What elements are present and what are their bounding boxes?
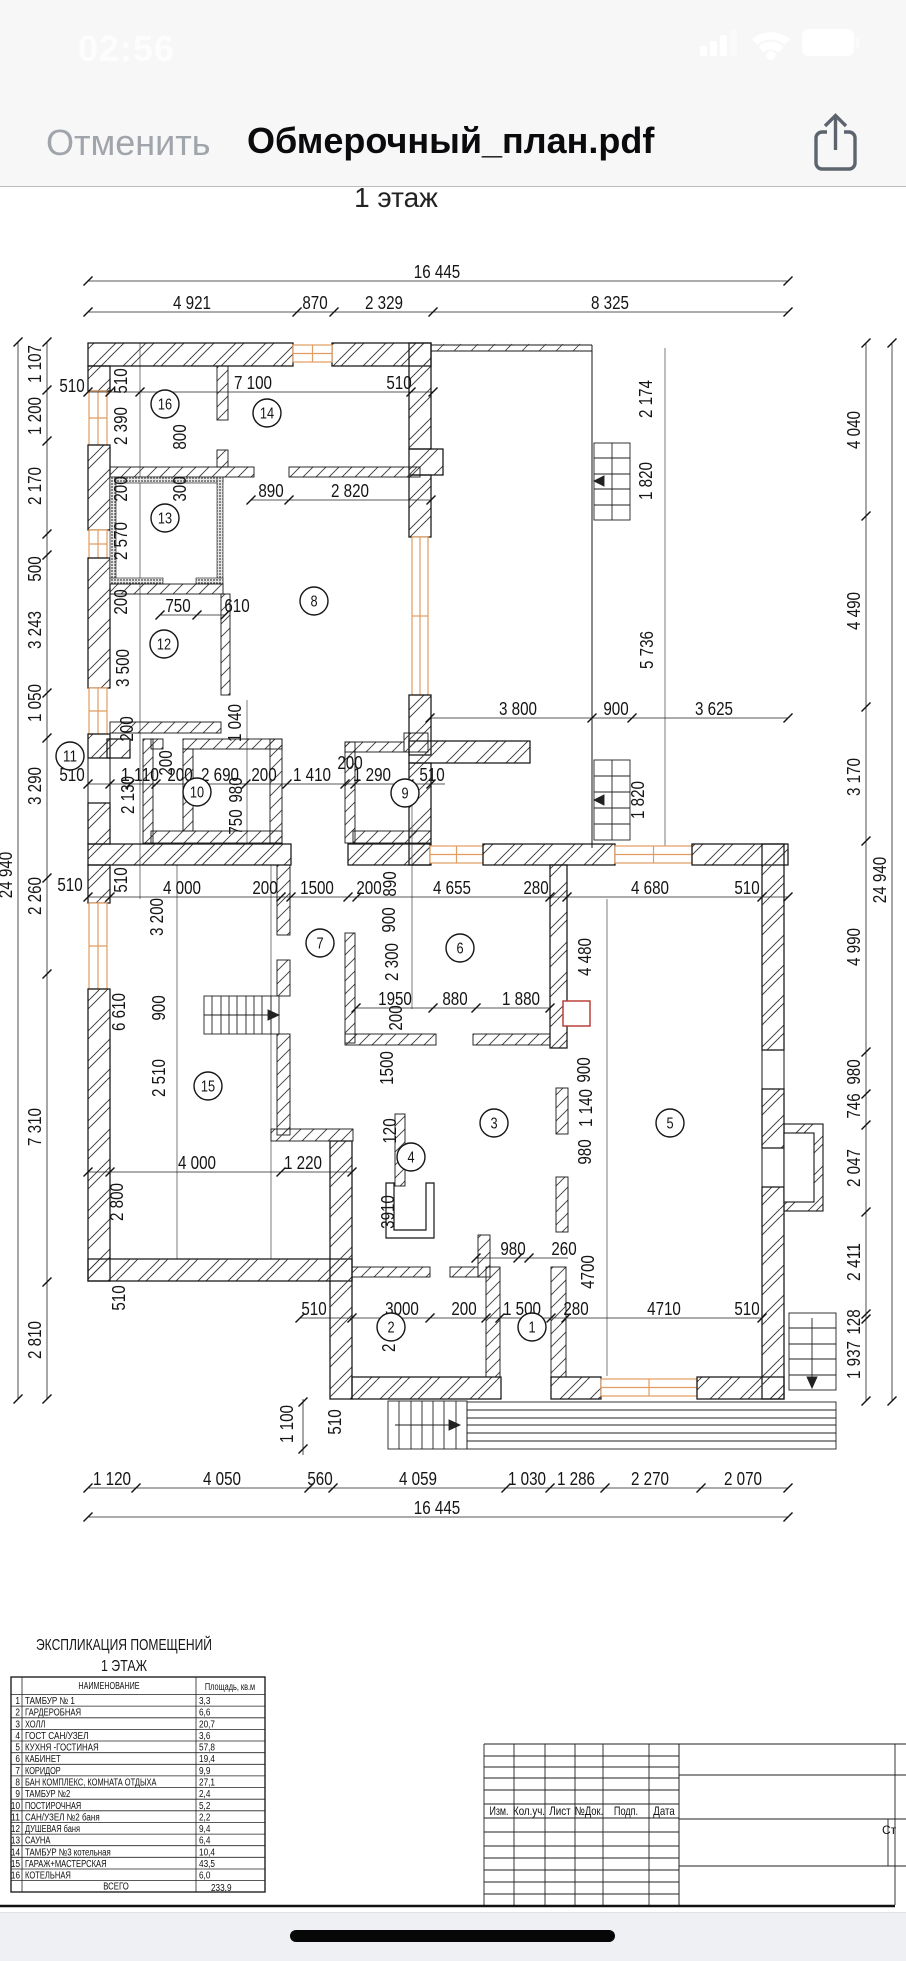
svg-text:5,2: 5,2 [199, 1801, 211, 1812]
svg-text:16 445: 16 445 [414, 1497, 460, 1518]
svg-text:КОРИДОР: КОРИДОР [25, 1766, 61, 1777]
dim row rooms 10-9 [59, 764, 445, 789]
svg-text:6,0: 6,0 [199, 1871, 211, 1882]
sauna room13 wall east [217, 477, 223, 584]
room 13 [151, 504, 179, 532]
wall room1 east [551, 1267, 566, 1377]
partition room7 east vertical [345, 933, 355, 1043]
cellular signal icon [700, 46, 707, 56]
svg-text:3 243: 3 243 [24, 611, 45, 649]
svg-text:890: 890 [258, 480, 283, 501]
construction line x247 [246, 700, 248, 843]
partition room11 east [143, 739, 153, 843]
svg-text:1500: 1500 [376, 1051, 397, 1085]
svg-text:11: 11 [63, 749, 77, 766]
room 4 [397, 1143, 425, 1171]
partition room15 east mid [277, 960, 290, 996]
svg-text:4 655: 4 655 [433, 877, 471, 898]
outer wall east seg2 [762, 1089, 784, 1148]
svg-text:9: 9 [15, 1789, 20, 1800]
svg-text:БАН КОМПЛЕКС, КОМНАТА ОТДЫХА: БАН КОМПЛЕКС, КОМНАТА ОТДЫХА [25, 1778, 157, 1789]
svg-text:2 270: 2 270 [631, 1468, 669, 1489]
stairs right of terrace [789, 1313, 836, 1390]
svg-text:6,6: 6,6 [199, 1708, 211, 1719]
svg-text:7 100: 7 100 [234, 372, 272, 393]
svg-text:10,4: 10,4 [199, 1847, 215, 1858]
outer wall bottom-left [88, 1259, 352, 1281]
svg-text:200: 200 [356, 877, 381, 898]
svg-text:1 030: 1 030 [508, 1468, 546, 1489]
svg-text:2 510: 2 510 [148, 1059, 169, 1097]
wall room8-garage upper [409, 343, 431, 449]
svg-text:1 200: 1 200 [24, 397, 45, 435]
svg-text:2 820: 2 820 [331, 480, 369, 501]
svg-text:120: 120 [379, 1118, 400, 1143]
svg-text:1 286: 1 286 [557, 1468, 595, 1489]
svg-text:1 410: 1 410 [293, 764, 331, 785]
partition room12-room8 vertical [221, 594, 230, 695]
dimension row 16 445 (top) [84, 261, 793, 286]
svg-text:610: 610 [224, 595, 249, 616]
svg-text:14: 14 [260, 406, 275, 423]
construction line x412 [411, 784, 413, 1009]
svg-text:3,6: 3,6 [199, 1731, 211, 1742]
outer wall west seg3 [88, 558, 110, 688]
sauna room13 wall south-left [110, 578, 163, 584]
svg-text:980: 980 [574, 1139, 595, 1164]
partition below room12 [110, 722, 221, 733]
svg-text:2 047: 2 047 [843, 1149, 864, 1187]
room 8 [300, 587, 328, 615]
wifi icon [752, 32, 790, 44]
svg-text:260: 260 [551, 1238, 576, 1259]
svg-text:15: 15 [201, 1079, 215, 1096]
svg-text:ГАРДЕРОБНАЯ: ГАРДЕРОБНАЯ [25, 1708, 81, 1719]
svg-text:3 170: 3 170 [843, 758, 864, 796]
bay window (erker) east [784, 1124, 823, 1211]
svg-text:Ст: Ст [882, 1823, 897, 1837]
wall room9 east [409, 763, 431, 865]
svg-text:5: 5 [15, 1743, 20, 1754]
svg-text:24 940: 24 940 [869, 857, 890, 903]
svg-text:3 800: 3 800 [499, 698, 537, 719]
svg-text:ХОЛЛ: ХОЛЛ [25, 1719, 45, 1730]
svg-text:3910: 3910 [377, 1195, 398, 1229]
svg-text:300: 300 [169, 476, 190, 501]
masonry U-shape in room 4 [386, 1183, 434, 1238]
svg-text:128: 128 [843, 1309, 864, 1334]
svg-text:13: 13 [11, 1836, 20, 1847]
svg-text:9,9: 9,9 [199, 1766, 211, 1777]
partition below room 14 east [289, 467, 420, 477]
middle wall between windows [483, 844, 615, 865]
wall room8-garage lower [409, 695, 431, 755]
left outer dimension 24 940 [0, 338, 23, 1404]
svg-text:1 120: 1 120 [93, 1468, 131, 1489]
cancel button [46, 122, 211, 164]
right segment dimensions column [843, 339, 871, 1406]
bottom home indicator area [0, 1912, 906, 1961]
room 12 [150, 630, 178, 658]
dim row 890-2820 [247, 480, 436, 505]
svg-text:Подп.: Подп. [614, 1804, 638, 1818]
svg-text:1950: 1950 [378, 988, 412, 1009]
outer wall west seg4b [88, 803, 110, 844]
svg-text:4 680: 4 680 [631, 877, 669, 898]
dim line 1 100 bottom stairs [302, 1399, 304, 1455]
right outer dimension 24 940 [869, 339, 897, 1406]
svg-text:200: 200 [110, 589, 131, 614]
middle wall west part [88, 844, 291, 865]
partition room3 north [473, 1034, 550, 1045]
svg-text:14: 14 [11, 1847, 20, 1858]
wall room1 west [486, 1267, 500, 1377]
partition rooms16-14 stub upper [217, 366, 228, 420]
svg-text:16: 16 [11, 1871, 20, 1882]
partition below room13 [110, 584, 223, 594]
dim row 3800-900-3625 [426, 698, 793, 723]
svg-text:280: 280 [523, 877, 548, 898]
window opening east wall line1 [761, 1148, 763, 1187]
svg-text:7: 7 [15, 1766, 20, 1777]
svg-text:24 940: 24 940 [0, 852, 16, 898]
battery icon [802, 29, 854, 56]
svg-text:8 325: 8 325 [591, 292, 629, 313]
svg-text:6: 6 [15, 1754, 20, 1765]
svg-text:1 ЭТАЖ: 1 ЭТАЖ [101, 1658, 148, 1675]
svg-text:4 059: 4 059 [399, 1468, 437, 1489]
svg-text:ДУШЕВАЯ баня: ДУШЕВАЯ баня [25, 1823, 80, 1835]
svg-text:3 200: 3 200 [146, 898, 167, 936]
svg-text:233,9: 233,9 [211, 1883, 232, 1894]
room 11 [56, 742, 84, 770]
outer wall west seg4a [88, 734, 110, 758]
svg-text:ТАМБУР №3 котельная: ТАМБУР №3 котельная [25, 1847, 111, 1858]
outer wall bottom seg2 [551, 1377, 601, 1399]
svg-text:ТАМБУР № 1: ТАМБУР № 1 [25, 1696, 75, 1707]
window in middle wall right [615, 846, 692, 863]
svg-text:43,5: 43,5 [199, 1859, 215, 1870]
garage top thin wall lower line [431, 350, 592, 352]
svg-text:200: 200 [385, 1005, 406, 1030]
door opening west wall line2 [109, 758, 111, 803]
svg-text:КОТЕЛЬНАЯ: КОТЕЛЬНАЯ [25, 1871, 71, 1882]
svg-text:1 937: 1 937 [843, 1341, 864, 1379]
svg-text:САУНА: САУНА [25, 1836, 51, 1847]
window in top wall [293, 345, 332, 362]
svg-text:3: 3 [490, 1116, 497, 1133]
partition room15-room4 jog [271, 1129, 353, 1141]
svg-text:20,7: 20,7 [199, 1719, 215, 1730]
svg-text:10: 10 [190, 785, 205, 802]
construction line x665 garage [664, 348, 666, 848]
wall rooms6-5 vertical [550, 865, 567, 1048]
stairs middle (garage, exterior) [594, 760, 630, 840]
partition rooms3-5 stub2 [556, 1177, 568, 1232]
svg-text:10: 10 [11, 1801, 20, 1812]
partition room2 north [352, 1267, 430, 1277]
svg-text:9,4: 9,4 [199, 1824, 211, 1835]
middle wall east part [692, 844, 788, 865]
outer wall top-right segment [332, 343, 431, 366]
svg-text:2 329: 2 329 [365, 292, 403, 313]
outer wall bottom seg3 [697, 1377, 784, 1399]
partition room9 west [345, 742, 355, 843]
svg-text:6,4: 6,4 [199, 1836, 211, 1847]
outer wall west seg2 [88, 445, 110, 530]
tambour bump room11 [107, 739, 130, 758]
sheet bottom border [0, 1905, 895, 1908]
room 10 [183, 778, 211, 806]
svg-text:12: 12 [157, 637, 171, 654]
svg-text:4: 4 [407, 1150, 414, 1167]
svg-text:200: 200 [252, 877, 277, 898]
svg-text:3: 3 [15, 1719, 20, 1730]
wall pilaster room8 east [409, 449, 443, 475]
garage south-west corner wall [409, 741, 530, 763]
svg-text:510: 510 [110, 867, 131, 892]
svg-text:900: 900 [148, 995, 169, 1020]
svg-text:510: 510 [59, 375, 84, 396]
svg-text:2 800: 2 800 [106, 1183, 127, 1221]
document title [247, 120, 654, 162]
svg-text:2 170: 2 170 [24, 467, 45, 505]
svg-text:6 610: 6 610 [108, 993, 129, 1031]
room 3 [480, 1109, 508, 1137]
dim row 980-260 [472, 1238, 577, 1263]
partition room10 south [151, 831, 282, 843]
svg-text:200: 200 [451, 1298, 476, 1319]
svg-text:900: 900 [573, 1057, 594, 1082]
svg-text:27,1: 27,1 [199, 1778, 215, 1789]
svg-text:2,2: 2,2 [199, 1812, 211, 1823]
iOS navigation chrome [0, 0, 906, 187]
svg-text:1 040: 1 040 [224, 704, 245, 742]
svg-text:8: 8 [15, 1778, 20, 1789]
svg-text:980: 980 [500, 1238, 525, 1259]
svg-text:980: 980 [843, 1059, 864, 1084]
svg-text:1 050: 1 050 [24, 684, 45, 722]
svg-text:11: 11 [11, 1812, 20, 1823]
window room8-garage [412, 537, 428, 695]
svg-text:8: 8 [310, 594, 317, 611]
partition rooms3-5 stub1 [556, 1088, 568, 1134]
outer wall bottom seg1 [352, 1377, 501, 1399]
svg-text:Кол.уч.: Кол.уч. [513, 1804, 545, 1818]
construction line x177 [176, 865, 178, 1259]
svg-text:5: 5 [666, 1116, 673, 1133]
partition room10 east [270, 739, 282, 843]
construction line x607 [606, 899, 608, 1376]
svg-text:510: 510 [386, 372, 411, 393]
window in bottom wall [601, 1379, 697, 1396]
room 1 [518, 1313, 546, 1341]
red service rectangle [563, 1001, 590, 1026]
svg-text:200: 200 [251, 764, 276, 785]
svg-text:ГОСТ САН/УЗЕЛ: ГОСТ САН/УЗЕЛ [25, 1731, 89, 1742]
partition room9 north [345, 742, 404, 752]
svg-text:900: 900 [603, 698, 628, 719]
svg-text:4: 4 [15, 1731, 20, 1742]
partition room9 corner piece [404, 733, 428, 752]
svg-text:1 100: 1 100 [276, 1405, 297, 1443]
svg-text:Лист: Лист [549, 1804, 571, 1818]
svg-text:2: 2 [387, 1320, 394, 1337]
room 16 [151, 390, 179, 418]
window W1 west wall [89, 391, 107, 445]
svg-text:4 990: 4 990 [843, 928, 864, 966]
partition room15 east lower [277, 1034, 290, 1135]
svg-text:57,8: 57,8 [199, 1743, 215, 1754]
stairs in room 15 [204, 996, 279, 1034]
sauna room13 wall north [110, 477, 223, 483]
svg-text:7 310: 7 310 [24, 1108, 45, 1146]
svg-text:510: 510 [110, 368, 131, 393]
svg-text:870: 870 [302, 292, 327, 313]
svg-text:510: 510 [301, 1298, 326, 1319]
room 5 [656, 1109, 684, 1137]
svg-text:3,3: 3,3 [199, 1696, 211, 1707]
svg-text:4 040: 4 040 [843, 411, 864, 449]
svg-text:ВСЕГО: ВСЕГО [103, 1882, 129, 1893]
svg-text:7: 7 [316, 936, 323, 953]
dimension row bottom segments [84, 1468, 793, 1493]
entrance stairs bottom [388, 1401, 467, 1449]
svg-text:13: 13 [158, 511, 172, 528]
svg-text:6: 6 [456, 941, 463, 958]
svg-text:3 625: 3 625 [695, 698, 733, 719]
partition room15 east upper [277, 865, 290, 935]
dim row rooms 2-1 [296, 1298, 767, 1323]
window W4 west wall [89, 903, 107, 989]
title block stamp grid [484, 1744, 906, 1905]
svg-text:2 174: 2 174 [635, 380, 656, 418]
svg-text:510: 510 [419, 764, 444, 785]
explication table text [11, 1681, 255, 1894]
svg-text:3 500: 3 500 [112, 649, 133, 687]
svg-text:3 290: 3 290 [24, 767, 45, 805]
title block labels [489, 1804, 896, 1837]
svg-text:1 220: 1 220 [284, 1152, 322, 1173]
svg-text:12: 12 [11, 1824, 20, 1835]
svg-text:КАБИНЕТ: КАБИНЕТ [25, 1754, 61, 1765]
svg-text:2 570: 2 570 [110, 522, 131, 560]
construction line x140 [139, 343, 141, 899]
svg-text:4 490: 4 490 [843, 592, 864, 630]
room 2 [377, 1313, 405, 1341]
svg-text:№Док.: №Док. [575, 1804, 603, 1818]
door opening west wall line1 [87, 758, 89, 803]
svg-text:200: 200 [110, 476, 131, 501]
partition tambour1 stub [450, 1267, 478, 1277]
window W3 west wall [89, 688, 107, 734]
partition rooms16-14 stub lower [217, 450, 228, 467]
partition tambour1 west vertical [478, 1235, 490, 1277]
partition below rooms 16/14 west [110, 467, 254, 477]
svg-text:САН/УЗЕЛ №2 баня: САН/УЗЕЛ №2 баня [25, 1811, 100, 1823]
status bar time [78, 28, 175, 70]
svg-text:Площадь, кв.м: Площадь, кв.м [205, 1682, 255, 1693]
garage top wall hatch ticks [437, 344, 580, 351]
status bar icons [698, 24, 860, 64]
garage east thin wall [591, 345, 593, 848]
sauna room13 wall west [110, 477, 116, 584]
svg-text:1: 1 [528, 1320, 535, 1337]
svg-text:890: 890 [379, 871, 400, 896]
svg-text:1 820: 1 820 [627, 781, 648, 819]
outer wall west seg6 [88, 989, 110, 1281]
svg-text:16: 16 [158, 397, 172, 414]
window opening east wall line2 [783, 1148, 785, 1187]
svg-text:4 480: 4 480 [574, 938, 595, 976]
partition room10 west [183, 749, 193, 831]
svg-text:510: 510 [734, 1298, 759, 1319]
svg-text:ПОСТИРОЧНАЯ: ПОСТИРОЧНАЯ [25, 1801, 81, 1812]
dimension row 4921-870-2329-8325 [84, 292, 793, 317]
dim row 1950-880-1880 [352, 988, 555, 1013]
room 15 [194, 1072, 222, 1100]
window opening east wall upper line1 [761, 1050, 763, 1089]
window W2 west wall [89, 530, 107, 558]
construction line x271 [270, 865, 272, 1259]
svg-text:510: 510 [734, 877, 759, 898]
svg-text:2 411: 2 411 [843, 1243, 864, 1281]
room 9 [391, 779, 419, 807]
outer wall east seg3 [762, 1187, 784, 1399]
svg-text:1: 1 [15, 1696, 20, 1707]
svg-text:746: 746 [843, 1093, 864, 1118]
svg-text:ТАМБУР №2: ТАМБУР №2 [25, 1789, 71, 1800]
svg-text:510: 510 [108, 1285, 129, 1310]
partition room9 south [353, 831, 431, 843]
svg-text:16 445: 16 445 [414, 261, 460, 282]
dim row 7100 [84, 372, 438, 397]
room 7 [306, 929, 334, 957]
room 14 [253, 399, 281, 427]
svg-text:510: 510 [57, 874, 82, 895]
svg-text:2 260: 2 260 [24, 877, 45, 915]
svg-text:200: 200 [116, 716, 137, 741]
svg-text:2,4: 2,4 [199, 1789, 211, 1800]
svg-text:2 070: 2 070 [724, 1468, 762, 1489]
svg-text:1 107: 1 107 [24, 345, 45, 383]
left segment dimensions column [24, 338, 52, 1404]
outer wall top-left segment [88, 343, 293, 366]
svg-text:Изм.: Изм. [489, 1804, 508, 1818]
partition room10 north stub [151, 739, 163, 749]
svg-text:4 921: 4 921 [173, 292, 211, 313]
svg-text:280: 280 [563, 1298, 588, 1319]
svg-text:4710: 4710 [647, 1298, 681, 1319]
svg-text:9: 9 [401, 786, 408, 803]
share icon [812, 112, 860, 174]
dim row middle wall [84, 877, 793, 902]
svg-text:800: 800 [169, 424, 190, 449]
svg-text:ГАРАЖ+МАСТЕРСКАЯ: ГАРАЖ+МАСТЕРСКАЯ [25, 1859, 107, 1870]
garage top thin wall upper line [431, 344, 592, 346]
middle wall centre part [348, 844, 430, 865]
terrace decking [467, 1402, 836, 1449]
outer wall east seg1 [762, 844, 784, 1050]
svg-text:2: 2 [15, 1708, 20, 1719]
dim row 4000-1220 [84, 1152, 357, 1177]
explication table [11, 1677, 265, 1892]
svg-text:880: 880 [442, 988, 467, 1009]
window opening east wall upper line2 [783, 1050, 785, 1089]
svg-text:1 290: 1 290 [353, 764, 391, 785]
room 6 [446, 934, 474, 962]
svg-text:1 140: 1 140 [575, 1089, 596, 1127]
